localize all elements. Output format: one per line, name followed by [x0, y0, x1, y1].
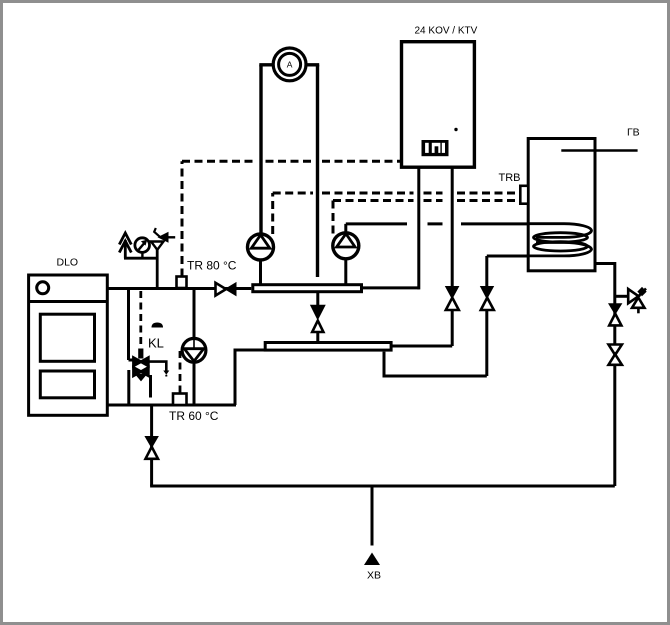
valve between manifolds — [311, 306, 325, 333]
sensor TR80 — [177, 277, 187, 289]
safety valve at tank — [628, 289, 646, 314]
label XB — [367, 570, 381, 582]
manifold lower — [265, 343, 391, 351]
KL bypass outlet — [149, 362, 170, 377]
svg-text:KL: KL — [148, 336, 164, 351]
pump P2 — [333, 233, 359, 259]
tank coil — [529, 224, 592, 256]
pipe XB cold water — [371, 486, 374, 546]
pipe manifold1 to KOV left — [363, 286, 420, 289]
valve on coil return pipe — [480, 286, 494, 310]
pipe pump1 to manifold — [259, 259, 262, 284]
label TR 60 C — [169, 409, 219, 423]
pipe KOV right lower to manifold2 — [392, 309, 452, 346]
svg-text:ГВ: ГВ — [627, 127, 640, 139]
svg-text:TR 60 °C: TR 60 °C — [169, 409, 219, 423]
pressure gauge — [135, 238, 150, 258]
label 24 KOV / KTV — [415, 26, 478, 37]
boiler 24 KOV / KTV — [402, 42, 475, 168]
sensor TR60 — [173, 394, 187, 406]
pipe KOV left — [417, 167, 420, 289]
pipe KOV right upper — [451, 167, 454, 288]
svg-text:DLO: DLO — [57, 257, 79, 269]
pipe DLO supply — [107, 287, 251, 290]
valve on KOV right pipe — [445, 286, 460, 310]
valve on cold feed lower — [609, 345, 622, 365]
svg-text:24 KOV / KTV: 24 KOV / KTV — [415, 26, 478, 37]
pipe riser right — [316, 65, 319, 277]
pipe riser top — [259, 63, 319, 66]
svg-text:ХВ: ХВ — [367, 570, 381, 582]
pump P1 — [248, 234, 274, 260]
svg-text:A: A — [287, 60, 293, 70]
valve on supply (bowtie) — [216, 283, 237, 296]
pipe tank outlet — [594, 264, 615, 487]
label DLO — [57, 257, 79, 269]
manifold upper — [253, 285, 362, 292]
pipe GV inner — [561, 149, 595, 152]
pipe pump2 to tank coil — [346, 224, 563, 234]
pipe KL to return — [127, 370, 130, 405]
mixing valve KL actuator dome — [152, 323, 164, 328]
mixing valve KL — [133, 349, 149, 381]
label GV — [627, 127, 640, 139]
boiler safety group vent arrow — [119, 233, 131, 258]
label TRB — [499, 172, 521, 184]
dashed sensor line TR80 to KOV boiler — [182, 161, 400, 276]
boiler safety valve — [151, 228, 175, 289]
dashed control line pump P2 to TRB — [333, 201, 521, 234]
KOV panel dot — [454, 128, 457, 131]
dashed control line pump P1 to TRB — [273, 193, 521, 234]
pipe manifold2 bottom to coil return — [384, 352, 487, 376]
safety group line — [124, 257, 157, 260]
safety valve drain cap — [637, 287, 646, 296]
pump P3 boiler circuit — [182, 289, 206, 406]
pipe manifold to return — [235, 350, 265, 405]
tank TRB — [528, 139, 595, 271]
pipe coil return riser — [487, 256, 562, 376]
pipe KL bottom port stub — [149, 375, 152, 398]
dashed sensor line KL valve — [139, 291, 142, 347]
boiler DLO — [29, 275, 108, 415]
label KL — [148, 336, 164, 351]
pipe bottom main — [150, 485, 615, 488]
label TR 80 C — [187, 259, 237, 273]
svg-text:TR 80 °C: TR 80 °C — [187, 259, 237, 273]
pipe branch to safety valve — [615, 295, 628, 298]
pipe drop to check valve — [150, 405, 153, 486]
pipe bypass riser with pump — [193, 289, 196, 406]
pipe GV hot water — [561, 149, 637, 152]
pipe DLO return — [107, 404, 236, 407]
pipe manifold valve stub — [316, 293, 319, 342]
fitting TRB — [520, 186, 528, 204]
cold water inlet arrow XB — [364, 553, 380, 566]
air vent A — [273, 48, 306, 81]
valve on cold feed upper — [608, 303, 622, 325]
pipe KL feed drop — [129, 289, 135, 361]
pipe riser left — [259, 65, 262, 234]
dashed sensor line TR60 to pump — [179, 351, 182, 394]
svg-text:TRB: TRB — [499, 172, 521, 184]
check valve below DLO — [144, 436, 159, 459]
KOV logo — [422, 140, 449, 156]
pipe pump2 to manifold — [344, 258, 347, 284]
